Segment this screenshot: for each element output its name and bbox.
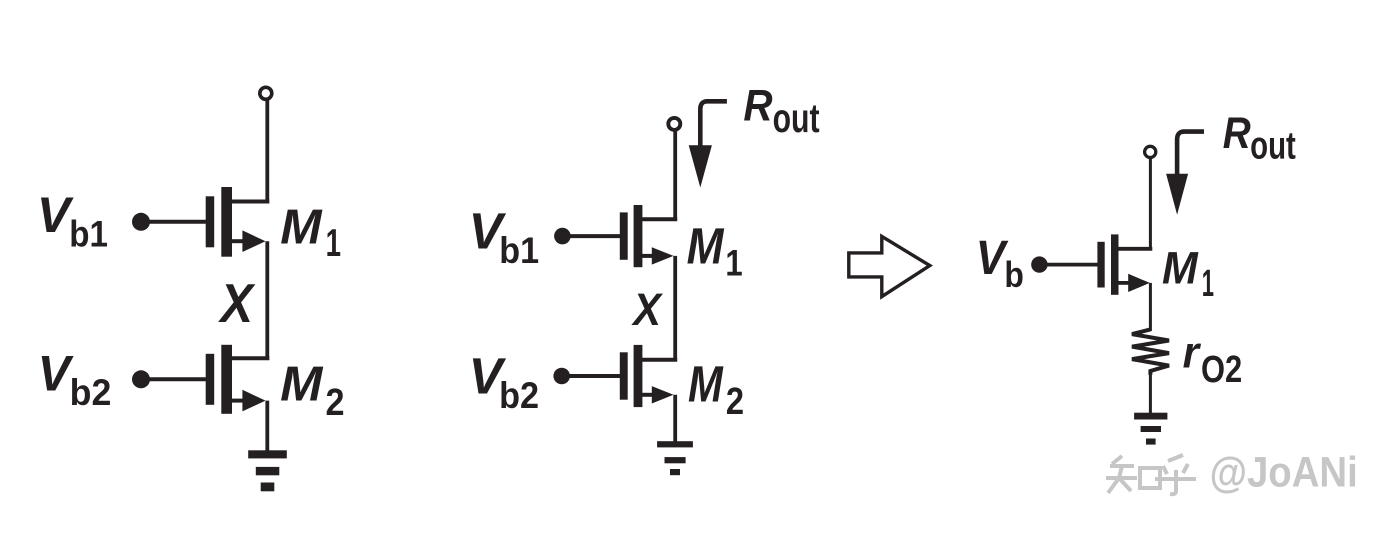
- svg-text:@JoANi: @JoANi: [1210, 448, 1358, 495]
- svg-text:2: 2: [326, 382, 345, 424]
- svg-text:O2: O2: [1201, 349, 1242, 391]
- svg-text:b2: b2: [499, 375, 539, 416]
- svg-text:b2: b2: [70, 372, 112, 413]
- svg-text:M: M: [687, 216, 725, 274]
- svg-text:M: M: [280, 199, 323, 255]
- svg-text:1: 1: [326, 222, 341, 265]
- svg-text:M: M: [280, 357, 323, 411]
- svg-text:b1: b1: [69, 214, 108, 255]
- svg-text:X: X: [630, 284, 663, 335]
- svg-text:V: V: [38, 346, 74, 402]
- svg-text:2: 2: [726, 380, 744, 423]
- svg-text:R: R: [743, 79, 773, 130]
- svg-text:1: 1: [1202, 262, 1214, 304]
- svg-text:X: X: [218, 272, 256, 334]
- svg-text:r: r: [1183, 328, 1202, 377]
- svg-text:b1: b1: [499, 230, 539, 271]
- svg-text:out: out: [1250, 125, 1296, 168]
- svg-text:M: M: [1162, 242, 1199, 293]
- svg-text:1: 1: [725, 243, 742, 284]
- svg-text:R: R: [1223, 107, 1251, 158]
- svg-text:out: out: [773, 95, 820, 141]
- svg-text:b: b: [1004, 254, 1024, 295]
- svg-text:M: M: [688, 355, 724, 413]
